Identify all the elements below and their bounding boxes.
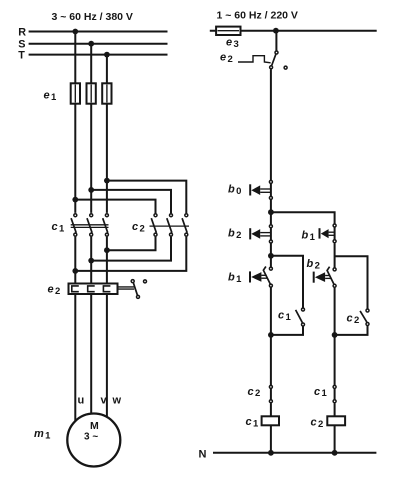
node: dot L1/c2 (72, 197, 78, 203)
svg-text:b0: b0 (228, 184, 241, 197)
node: supply tap dot (273, 28, 279, 34)
pushbutton b1 (NC, right branch) (320, 224, 337, 243)
svg-text:v: v (101, 395, 108, 407)
e2 heater element pole 2 (88, 286, 95, 292)
wire: coil c1 to N (270, 425, 272, 453)
wire: L1 vertical (R to c1) (74, 32, 76, 213)
node: tap on T (104, 52, 110, 58)
node: dot to right branch (y212) (268, 209, 274, 215)
wire: interlock to coil c1 (270, 403, 272, 416)
wire: c2 pole1 bottom to L3 (107, 237, 156, 251)
svg-text:b1: b1 (302, 230, 316, 243)
node: dot coil c1 to N (268, 450, 274, 456)
wire: b2R down to interlock (334, 288, 336, 385)
wire: L3 tap to c2 right pole (107, 181, 186, 214)
interlock contact c1 (NC, right branch) (333, 385, 336, 402)
contactor c1 main contact pole 1 (71, 214, 77, 236)
contactor c1 main contact pole 2 (87, 214, 93, 236)
wire: L2 tap to c2 middle pole (91, 190, 171, 213)
wire: L1 c1 to motor (74, 237, 76, 421)
fuse e1 pole 1 (71, 83, 80, 103)
svg-text:c1: c1 (278, 310, 292, 323)
coil c1 (262, 416, 279, 425)
motor m1 circle (67, 414, 120, 467)
wire: b1R to b2R (334, 243, 336, 267)
node: dot c1-aux rejoin (268, 332, 274, 338)
svg-text:c2: c2 (347, 313, 360, 326)
pushbutton b2 (NO start rev, right) (314, 267, 336, 288)
node: dot L3/c2 (104, 178, 110, 184)
svg-text:m1: m1 (34, 428, 51, 441)
svg-text:M: M (90, 420, 99, 432)
svg-text:c2: c2 (248, 386, 261, 399)
svg-text:u: u (78, 395, 85, 407)
node: dot L2/c2 (88, 187, 94, 193)
svg-text:b2: b2 (228, 228, 241, 241)
c1 mechanical linkage (double bar) (71, 225, 109, 228)
wire: e2 to b0 (270, 69, 272, 180)
svg-text:c1: c1 (314, 386, 328, 399)
node: tap on R (72, 29, 78, 35)
wire: neutral N line (213, 452, 376, 454)
node: tap on S (88, 41, 94, 47)
svg-text:c2: c2 (311, 417, 324, 430)
wire: b0 to b2 (270, 200, 272, 225)
node: dot c2/L2 return (88, 258, 94, 264)
node: dot coil c2 to N (332, 450, 338, 456)
wire: phase bus R (29, 31, 168, 33)
wire: L1 tap to c2 left pole (75, 200, 155, 214)
wire: b1 down to interlock (270, 288, 272, 386)
wire: control supply line (210, 30, 377, 32)
wire: L2 vertical (S to c1) (90, 44, 92, 213)
svg-text:e1: e1 (44, 90, 58, 103)
wire: L3 c1 to motor (106, 237, 108, 417)
wire: c2 pole3 bottom to L1 (75, 237, 186, 271)
svg-text:R: R (18, 26, 26, 38)
wire: L2 c1 to motor (90, 237, 92, 414)
wire: c2 pole2 bottom to L2 (91, 237, 171, 261)
svg-text:c1: c1 (52, 221, 66, 234)
wire: coil c2 to N (334, 425, 336, 453)
wire: L3 vertical (T to c1) (106, 55, 108, 213)
fuse e1 pole 2 (87, 83, 96, 103)
overload relay e2 body (69, 284, 118, 295)
e2 heater element pole 3 (103, 286, 110, 292)
svg-text:T: T (18, 49, 25, 61)
pushbutton b0 (NC stop) (250, 180, 272, 199)
contactor c2 main contact pole 3 (182, 214, 188, 236)
svg-text:b2: b2 (307, 258, 320, 271)
svg-text:N: N (199, 449, 207, 461)
aux contact c1 (NO self-hold) (296, 308, 305, 326)
wire: drop to e2 trip contact (275, 31, 277, 51)
svg-text:e2: e2 (220, 52, 233, 65)
wire: branch to c1 aux contact (271, 256, 303, 308)
wire: branch to b1 (right) (271, 212, 335, 223)
coil c2 (327, 416, 345, 425)
fuse e3 (216, 27, 240, 35)
aux contact c2 (NO self-hold) (360, 309, 369, 326)
c2 mechanical linkage bar (150, 225, 190, 227)
fuse e1 pole 3 (102, 83, 111, 103)
e2 trip actuator (double rod) (118, 287, 135, 289)
wire: c2 aux bottom to right branch (335, 326, 368, 335)
interlock contact c2 (NC, left branch) (269, 385, 272, 402)
wire: b2 to b1 (270, 243, 272, 266)
e2 heater element pole 1 (72, 286, 79, 292)
svg-text:e3: e3 (226, 37, 239, 50)
svg-text:1 ~ 60 Hz / 220 V: 1 ~ 60 Hz / 220 V (217, 9, 298, 21)
wire: interlock to coil c2 (334, 403, 336, 416)
wire: branch to c2 aux contact (335, 256, 368, 308)
e2 trip contact (131, 280, 146, 299)
node: dot c2/L3 return (104, 247, 110, 253)
pushbutton b2 (NC, left) (250, 225, 272, 243)
node: dot c2-aux rejoin (332, 332, 338, 338)
contactor c2 main contact pole 1 (151, 214, 157, 236)
wire: phase bus S (29, 43, 168, 45)
svg-text:e2: e2 (48, 284, 61, 297)
node: dot c2/L1 return (72, 268, 78, 274)
wire: c1 aux bottom to left branch (271, 326, 303, 335)
svg-text:c1: c1 (246, 416, 260, 429)
node: dot to c1 aux branch (268, 253, 274, 259)
svg-text:3 ~ 60 Hz / 380 V: 3 ~ 60 Hz / 380 V (52, 11, 133, 23)
svg-text:b1: b1 (228, 272, 242, 285)
e2 trip contact (control side, NC) (270, 51, 288, 69)
contactor c1 main contact pole 3 (103, 214, 109, 236)
svg-text:3 ~: 3 ~ (84, 432, 98, 443)
contactor c2 main contact pole 2 (167, 214, 173, 236)
wire: phase bus T (29, 54, 168, 56)
svg-text:w: w (112, 395, 122, 407)
e2 trip linkage (step) (238, 56, 271, 63)
svg-text:c2: c2 (132, 221, 145, 234)
pushbutton b1 (NO start fwd, left) (250, 267, 272, 288)
